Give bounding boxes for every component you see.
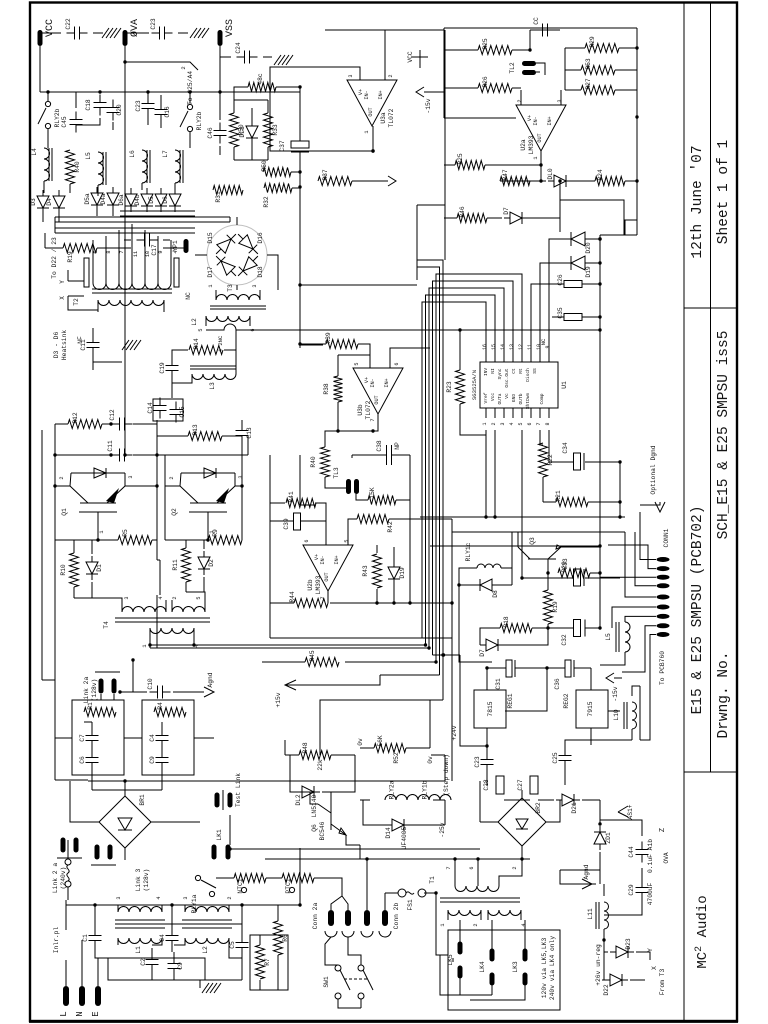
svg-text:56K: 56K [377,735,384,747]
resistor R10 [60,553,79,587]
capacitor C19 [159,358,179,379]
svg-text:15: 15 [491,344,497,350]
title text drawing name [716,331,732,540]
title block column divider line [710,3,712,772]
svg-text:LK3: LK3 [512,961,519,973]
label Z [659,828,667,832]
capacitor C26 [557,274,589,287]
label R52 [393,752,400,764]
wire to C25/A4 stub [125,62,198,70]
capacitor C23r [474,752,494,773]
svg-text:C26: C26 [557,274,564,286]
label TL2 [509,62,516,74]
junction dots y781 [93,779,301,906]
junction dots bottom [365,822,605,941]
svg-text:D3: D3 [30,198,37,206]
svg-text:Vref: Vref [483,392,489,403]
svg-text:INV: INV [483,368,489,377]
svg-text:BR2: BR2 [535,802,542,814]
connector CONN1 pin8 [657,623,670,628]
svg-text:D20: D20 [585,242,592,254]
connector CONN1 pin6 [657,605,670,610]
resistor R11 [172,548,191,582]
conn CONN2a pin1 hook [325,931,337,937]
svg-text:2: 2 [517,99,523,102]
svg-text:VCC: VCC [407,51,414,63]
svg-text:Test Link: Test Link [235,773,242,807]
svg-text:CC: CC [533,17,540,25]
svg-text:C18: C18 [85,99,92,111]
svg-text:4: 4 [521,923,527,926]
filter L2 top [185,907,229,912]
svg-text:R26: R26 [482,76,489,88]
svg-text:R37: R37 [322,169,329,181]
svg-text:Ct: Ct [511,368,517,374]
svg-text:REG2: REG2 [563,693,570,708]
svg-text:5: 5 [198,328,204,331]
relay RLY2b contact a [38,101,51,128]
svg-text:NP: NP [394,442,401,450]
svg-text:12th June '07: 12th June '07 [690,145,706,258]
svg-text:IN-: IN- [364,90,370,99]
svg-text:7: 7 [320,596,326,599]
resistor R25 [478,38,512,54]
svg-text:Vcc: Vcc [490,393,496,402]
transistor Q2 [169,468,244,540]
diode D20 [565,232,592,254]
transformer T4 winding L [122,607,166,613]
resistor R47 [500,169,530,185]
svg-text:R48: R48 [302,742,309,754]
label 0v b [427,756,434,764]
diode D4a [100,187,119,211]
svg-text:4: 4 [158,596,164,599]
junction dots reg [485,666,548,747]
svg-text:3: 3 [348,74,354,77]
svg-text:C13: C13 [246,427,253,439]
wire U3a loop [270,30,445,151]
wire snubber2 [186,540,208,612]
svg-text:DL0: DL0 [547,168,554,180]
label 4700uF [647,882,654,905]
svg-text:DL1: DL1 [239,126,246,138]
svg-text:C20: C20 [116,104,123,116]
svg-text:10: 10 [145,251,151,257]
resistor R19 [63,244,97,263]
label L2 filt [202,946,209,954]
svg-text:C4: C4 [149,734,156,742]
resistor R6 [274,921,290,955]
svg-text:3: 3 [557,99,563,102]
power VCC symbol [407,50,428,68]
capacitor C1 [82,928,102,949]
svg-text:R52: R52 [393,752,400,764]
junction dots rail y455 [109,422,126,456]
svg-text:D6: D6 [162,196,169,204]
svg-text:R11: R11 [172,559,179,571]
svg-text:C17: C17 [151,244,158,256]
svg-text:DL2: DL2 [295,794,302,806]
svg-text:5: 5 [518,422,524,425]
svg-text:L1: L1 [135,946,142,954]
svg-text:Rt: Rt [518,368,524,374]
conn CONN2a pin2 hook [342,931,354,937]
connector CONN1 pin3 [657,575,670,580]
svg-text:240v via LK4 only: 240v via LK4 only [549,936,556,1000]
svg-text:R50: R50 [261,160,268,172]
label LK3 [512,961,519,973]
label L [59,1011,69,1016]
svg-text:PTC1: PTC1 [285,878,292,893]
IC U1 box [480,362,558,408]
IC U1 texts [471,368,568,410]
wire Q1 Q2 drops [42,420,242,540]
title text project [690,506,706,715]
junction dot R23 top [458,328,461,331]
capacitor C27 [517,776,538,794]
svg-text:TL072: TL072 [365,400,372,419]
svg-text:BC546: BC546 [319,821,326,840]
transformer T1 core [440,898,520,902]
svg-text:6: 6 [304,539,310,542]
capacitor C38 [376,440,400,465]
wire U3b loop [300,344,430,447]
svg-text:R46: R46 [459,206,466,218]
terminal VCC [38,30,43,46]
IC U1 bottom pins [482,408,551,426]
label (128v) [91,679,98,702]
wire U2a out net [444,165,637,181]
wire stepdown nets [285,700,445,859]
svg-text:Q1: Q1 [61,508,68,516]
svg-text:15K: 15K [369,487,376,499]
svg-text:VCC: VCC [45,19,56,37]
label To PCB760 [659,651,666,685]
capacitor C36 [547,660,591,690]
svg-text:SS: SS [532,368,538,374]
test link pin1 [215,793,220,808]
svg-text:3: 3 [128,475,134,478]
label VSS [225,19,236,37]
resistor R1 [84,702,116,716]
svg-text:(128v): (128v) [91,679,98,702]
capacitor C32 [561,620,585,646]
svg-text:4: 4 [173,250,179,253]
inductor L5 [85,152,106,185]
svg-text:IN+: IN+ [334,555,340,564]
label D15 [207,232,214,244]
transformer T2 primary winding [93,258,171,290]
capacitor C7 [79,728,99,749]
label Test Link [235,773,242,807]
svg-text:X: X [651,966,658,970]
junction dots rail y92 [46,60,221,93]
svg-text:R7: R7 [264,958,271,966]
op-amp U2a labels [517,99,563,159]
resistor R40b [310,447,330,477]
svg-text:From T3: From T3 [659,969,666,996]
svg-text:Agnd: Agnd [583,864,590,879]
svg-text:R40: R40 [310,456,317,468]
resistor R5 [118,529,152,544]
wire left rail to BR1 [70,781,125,822]
svg-text:0.1uF A1b: 0.1uF A1b [647,839,654,873]
svg-text:TL072: TL072 [388,108,395,127]
inductor L6 [129,150,150,183]
svg-text:48c: 48c [257,73,264,85]
resistor R27 [581,78,615,94]
svg-text:5: 5 [93,250,99,253]
svg-text:7: 7 [119,250,125,253]
svg-text:N: N [75,1011,85,1016]
svg-text:U3b: U3b [357,404,364,416]
svg-text:C32: C32 [561,634,568,646]
link LK3 pin2 [523,973,528,986]
resistor R9 [208,529,242,544]
capacitor C12 [109,409,133,430]
capacitor C5 [229,935,249,956]
diode D4b [134,188,153,212]
svg-text:T2: T2 [73,298,80,306]
label Link 2 [52,863,59,893]
label NC u1 [540,338,547,345]
wire rc cluster nets [55,722,214,775]
svg-text:IN+: IN+ [384,378,390,387]
svg-text:6: 6 [527,422,533,425]
junction dot q1 gate [96,538,99,541]
transformer T4 pins [122,596,205,647]
svg-text:3: 3 [124,596,130,599]
ground hatch mains [202,983,221,993]
connector CONN1 pin4 [657,583,670,588]
resistor 15K [368,487,396,504]
transformer T3 core [210,306,266,309]
resistor R33 [264,113,280,147]
svg-text:2: 2 [388,74,394,77]
svg-text:D4b: D4b [134,194,141,206]
ground hatch near C24 [274,55,293,65]
svg-text:OUT: OUT [368,107,374,116]
resistor R39 [325,332,358,348]
svg-text:ØVA: ØVA [129,19,141,37]
label LK4 [479,961,486,973]
svg-text:R13: R13 [192,424,199,436]
svg-text:L4: L4 [31,148,38,156]
link LK5 pin1 [458,942,463,955]
wire C10 run [101,660,204,700]
svg-text:2: 2 [172,596,178,599]
svg-text:8: 8 [106,250,112,253]
svg-text:IN+: IN+ [547,116,553,125]
svg-text:D8: D8 [492,590,499,598]
capacitor C9c [149,750,169,771]
label To D22/23 [51,237,58,279]
diode D6a [118,188,137,212]
svg-text:SW1: SW1 [323,976,330,988]
diode D14 [385,819,410,839]
wire R23 net [460,330,486,435]
link Link2a pin1 [99,679,104,694]
svg-text:To PCB760: To PCB760 [659,651,666,685]
svg-text:T4: T4 [103,621,110,629]
svg-text:C46: C46 [207,127,214,139]
wire R32 to rail [291,172,417,345]
svg-text:OUT: OUT [324,572,330,581]
label D16 [257,232,264,244]
net arrow Agnd1 [204,672,214,697]
transistor Q3 [518,537,561,559]
svg-text:OUT: OUT [374,395,380,404]
svg-text:LM393: LM393 [315,575,322,594]
svg-text:3: 3 [238,475,244,478]
capacitor CC [533,17,556,36]
svg-text:11: 11 [527,344,533,350]
link Link2a bar [95,671,120,673]
capacitor C25r [552,748,572,769]
capacitor C9 [168,956,185,977]
svg-text:FS1: FS1 [407,899,414,911]
diode ZD1 [594,826,612,850]
svg-text:R25: R25 [482,38,489,50]
svg-text:R18: R18 [503,616,510,628]
svg-text:R29: R29 [589,36,596,48]
resistor R24 [595,169,625,185]
capacitor C34 [562,442,584,470]
wire T4 bottom run [150,640,194,648]
label L3 [209,382,216,390]
svg-text:4700uF: 4700uF [647,882,654,905]
svg-text:U3a: U3a [380,112,387,124]
diode D5a [84,187,103,211]
svg-text:Sync: Sync [497,368,503,379]
svg-text:D14: D14 [385,827,392,839]
svg-text:R47: R47 [502,169,509,181]
wire snubber1 [74,540,157,612]
diode D8 [474,579,499,598]
junction dots U3b [298,342,339,432]
svg-text:D15: D15 [207,232,214,244]
label 240v note [549,936,556,1000]
bridge rectifier BR1 [99,796,151,848]
bridge ring D15-D18 [207,225,267,285]
title text sheet [716,140,732,244]
wire mains mesh [66,848,300,990]
svg-text:R20: R20 [561,561,568,573]
transformer T2 secondary [98,300,164,306]
wire diode bus [43,208,195,222]
fuse FS1 [394,889,436,911]
net arrow Agnd2 [582,864,592,889]
svg-text:2: 2 [512,866,518,869]
transformer T3 winding [216,295,260,301]
capacitor C15 [170,402,187,423]
svg-text:E15 & E25 SMPSU (PCB702): E15 & E25 SMPSU (PCB702) [690,506,706,715]
label Link 2a [83,677,90,704]
diode D15 [212,230,240,258]
svg-text:-15v: -15v [612,686,619,701]
wire mains leads [66,840,205,986]
svg-text:Sheet 1 of 1: Sheet 1 of 1 [716,140,732,244]
svg-text:Link 2 a: Link 2 a [52,863,59,893]
label step down [443,754,450,796]
svg-text:Conn 2b: Conn 2b [393,903,400,930]
wire OVA long drop [124,430,126,455]
svg-text:C45: C45 [61,116,68,128]
diode D7 [503,207,528,224]
inductor L11 [587,902,609,929]
svg-text:14: 14 [500,344,506,350]
transformer T2 pin posts [84,258,179,287]
svg-text:2: 2 [180,66,187,69]
wire inductor leads [44,181,175,196]
label heatsink note2 [61,330,68,360]
label 2 stub [180,66,187,69]
conn CONN2b pin1 [364,910,370,926]
capacitor C2 [140,952,159,973]
svg-text:LN5140: LN5140 [311,794,318,817]
svg-text:1: 1 [482,422,488,425]
label N [75,1011,85,1016]
svg-text:7815: 7815 [487,701,494,716]
label LN5140 [311,794,318,817]
svg-text:C25: C25 [552,752,559,764]
svg-text:R40: R40 [74,161,81,173]
svg-text:13: 13 [509,344,515,350]
label 22k [317,759,324,771]
test link pin2 [228,793,233,808]
svg-text:R14: R14 [193,338,200,350]
svg-text:7: 7 [446,866,452,869]
label L1 [135,946,142,954]
transistor Q6 [311,804,346,840]
resistor R38 [323,376,343,402]
diode D19b [388,561,406,585]
diode D3 [30,190,49,214]
resistor R45 [305,650,339,666]
svg-text:R45: R45 [309,650,316,662]
svg-text:R24: R24 [597,169,604,181]
svg-text:Disch: Disch [525,368,531,382]
resistor R35t [248,73,276,91]
svg-text:5: 5 [196,596,202,599]
svg-text:0v: 0v [357,738,364,746]
svg-text:Y: Y [59,280,66,284]
svg-text:2: 2 [473,923,479,926]
title block divider y308 [684,307,737,309]
pin numbers mains [116,896,233,899]
svg-text:C28: C28 [483,779,490,791]
svg-text:Link 3: Link 3 [135,868,142,891]
svg-text:R12: R12 [72,412,79,424]
capacitor C23b [135,96,155,117]
wire D7 net [444,181,560,232]
resistor R37 [318,169,352,185]
filter L2 core [182,920,232,928]
svg-text:1: 1 [533,156,539,159]
svg-text:AS1+: AS1+ [627,804,634,819]
svg-text:YP1: YP1 [172,240,179,252]
op-amp U2a [516,105,566,151]
svg-text:C11: C11 [80,339,87,351]
svg-text:D19: D19 [399,567,406,579]
svg-text:C36: C36 [554,678,561,690]
resistor R20 [558,561,590,577]
svg-text:L7: L7 [162,150,169,158]
svg-text:LK4: LK4 [479,961,486,973]
wire long y546 [430,545,600,547]
svg-text:U2b: U2b [307,579,314,591]
resistor R4 [154,702,186,716]
